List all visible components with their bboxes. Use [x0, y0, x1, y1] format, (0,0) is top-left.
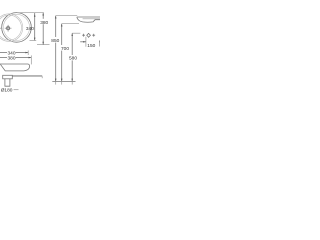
svg-text:700: 700: [61, 46, 69, 52]
elevation: 700 extension line: [62, 23, 79, 25]
top view: bowl outer circle (offset toward drain): [0, 14, 23, 42]
dimension line 580 vertical: [71, 33, 73, 81]
elevation basin: inner rim line: [83, 18, 100, 20]
side section: 340 horizontal dimension: [0, 50, 28, 55]
svg-text:380: 380: [8, 55, 16, 61]
fixing hole symbol right: [92, 34, 95, 37]
extension drop from drain (left ext of 150 dim): [85, 37, 87, 47]
svg-text:150: 150: [87, 43, 95, 49]
top view: bowl inner circle: [0, 15, 22, 40]
150 dimension line with arrows: [80, 41, 100, 43]
drain flange rectangle: [3, 75, 13, 79]
dimension line 380 vertical: [42, 13, 44, 45]
side section: 380 horizontal dimension: [0, 55, 31, 64]
top view: inner rim circle: [3, 14, 29, 40]
drain hole symbol (diamond): [87, 33, 91, 38]
svg-text:340: 340: [26, 26, 34, 32]
svg-text:Ø180: Ø180: [1, 88, 13, 94]
top view: outer rim circle of round basin: [2, 13, 32, 43]
elevation: 850 extension line at rim level: [56, 15, 77, 17]
basin side profile: bowl underside and right tip: [0, 64, 29, 71]
pipe end tick: [41, 76, 43, 78]
drain pipe double line to wall: [12, 74, 42, 76]
dimension line 340 vertical: [34, 13, 36, 40]
floor hatch ticks: [56, 82, 72, 85]
svg-text:380: 380: [40, 20, 48, 26]
extension line top (circle top tangent): [17, 12, 44, 14]
floor line: [52, 81, 75, 83]
right extension line of 150 dim: [98, 40, 100, 46]
extension line bottom of 380: [37, 44, 50, 46]
elevation basin: bowl profile: [77, 17, 100, 22]
fixing hole symbol left: [82, 34, 85, 37]
basin side profile: rim: [0, 63, 28, 65]
elevation: 580 extension line: [72, 32, 80, 34]
leader dash right of label: [14, 89, 19, 91]
drain crosshair symbol: [5, 25, 12, 32]
drain tailpipe: [5, 79, 10, 86]
svg-text:580: 580: [69, 56, 77, 62]
dimension line 700 vertical: [61, 24, 63, 82]
dimension line 850 vertical: [55, 16, 57, 82]
extension line bottom of 340: [30, 39, 37, 41]
svg-text:850: 850: [51, 38, 59, 44]
elevation basin: rim top line: [77, 16, 100, 18]
drain symbol centerline dash: [0, 27, 2, 29]
